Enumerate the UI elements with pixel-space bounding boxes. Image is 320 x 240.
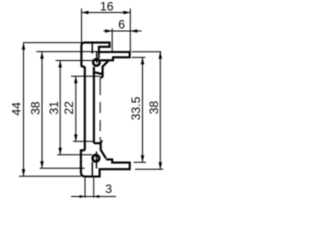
dimension line 38 right xyxy=(159,52,161,170)
arrow 6 left (outside) xyxy=(105,29,112,33)
extension line 3 right xyxy=(93,178,95,198)
dimension line 3 xyxy=(71,196,116,198)
arrow 33.5 bottom xyxy=(141,155,145,162)
extension line 6 left xyxy=(111,29,113,53)
extension line 33.5 top xyxy=(132,56,146,58)
arrow 6 right (outside) xyxy=(130,29,137,33)
arrow 38-right bottom xyxy=(159,162,163,169)
extension line 44 top xyxy=(23,42,81,44)
arrow 44 top xyxy=(22,43,26,50)
arrow 3 right (outside) xyxy=(94,195,100,198)
spine right face xyxy=(93,67,95,143)
svg-text:16: 16 xyxy=(100,0,114,13)
top roll inner curl line xyxy=(96,51,98,63)
svg-text:38: 38 xyxy=(29,101,43,115)
head step tick xyxy=(81,66,84,68)
head inner rib xyxy=(91,44,93,54)
extension line 16/6 right xyxy=(129,9,131,53)
svg-text:22: 22 xyxy=(62,101,76,115)
dimension line 6 xyxy=(104,30,142,32)
svg-text:6: 6 xyxy=(118,18,125,32)
arrow 33.5 top xyxy=(141,57,145,64)
extension line 38-right top xyxy=(132,51,162,53)
bottom hook tip tick xyxy=(101,140,103,142)
arrow 44 bottom xyxy=(22,169,26,176)
extension line 38-right bottom xyxy=(135,168,163,170)
arrow 3 left (outside) xyxy=(80,195,86,198)
extension line 44 bottom xyxy=(19,175,81,177)
bottom hook tongue xyxy=(101,141,106,158)
foot outline xyxy=(81,150,130,176)
extension line 38-left bottom xyxy=(40,167,85,169)
dimension line 44 xyxy=(23,43,25,177)
svg-text:3: 3 xyxy=(105,182,112,196)
arrow 16 right xyxy=(123,11,130,15)
foot inner rib xyxy=(91,162,93,176)
top hook roll xyxy=(93,59,100,66)
dimension line 33.5 xyxy=(142,57,144,162)
extension line 22 top xyxy=(71,75,100,77)
arrow 38-left top xyxy=(40,52,44,59)
arrow 31 top xyxy=(58,61,62,68)
extension line 16 left xyxy=(81,9,83,43)
arm root to roll connector xyxy=(98,52,100,58)
dimension line 22 xyxy=(75,76,77,141)
svg-text:38: 38 xyxy=(147,101,161,115)
dimension line 38 left xyxy=(41,52,43,168)
arrow 38-left bottom xyxy=(40,161,44,168)
extension line 38-left top xyxy=(36,51,99,53)
bottom shelf xyxy=(94,142,101,144)
arrow 31 bottom xyxy=(58,148,62,155)
extension line 33.5 bottom xyxy=(134,161,146,163)
svg-text:33.5: 33.5 xyxy=(129,96,143,120)
dimension line 31 xyxy=(59,61,61,155)
arrow 38-right top xyxy=(159,52,163,59)
bottom hook roll xyxy=(93,155,100,162)
arrow 22 top xyxy=(74,76,78,83)
arrow 22 bottom xyxy=(74,134,78,141)
extension line 22 bottom xyxy=(73,140,94,142)
extension line 3 left xyxy=(84,178,86,198)
extension line 31 bottom xyxy=(57,154,92,156)
profile head outline xyxy=(81,43,129,67)
hidden dashed line between hook tips xyxy=(99,78,101,141)
svg-text:31: 31 xyxy=(47,101,61,115)
top hook lip bottom xyxy=(93,72,103,74)
svg-text:44: 44 xyxy=(9,102,23,116)
dimension line 16 xyxy=(82,12,131,14)
arrow 16 left xyxy=(82,11,89,15)
spine left face xyxy=(84,67,86,151)
extension line 31 top xyxy=(56,60,100,62)
top hook step and tongue xyxy=(103,60,108,77)
bottom roll inner curl line xyxy=(96,152,98,169)
top hook tip tick xyxy=(100,76,102,78)
